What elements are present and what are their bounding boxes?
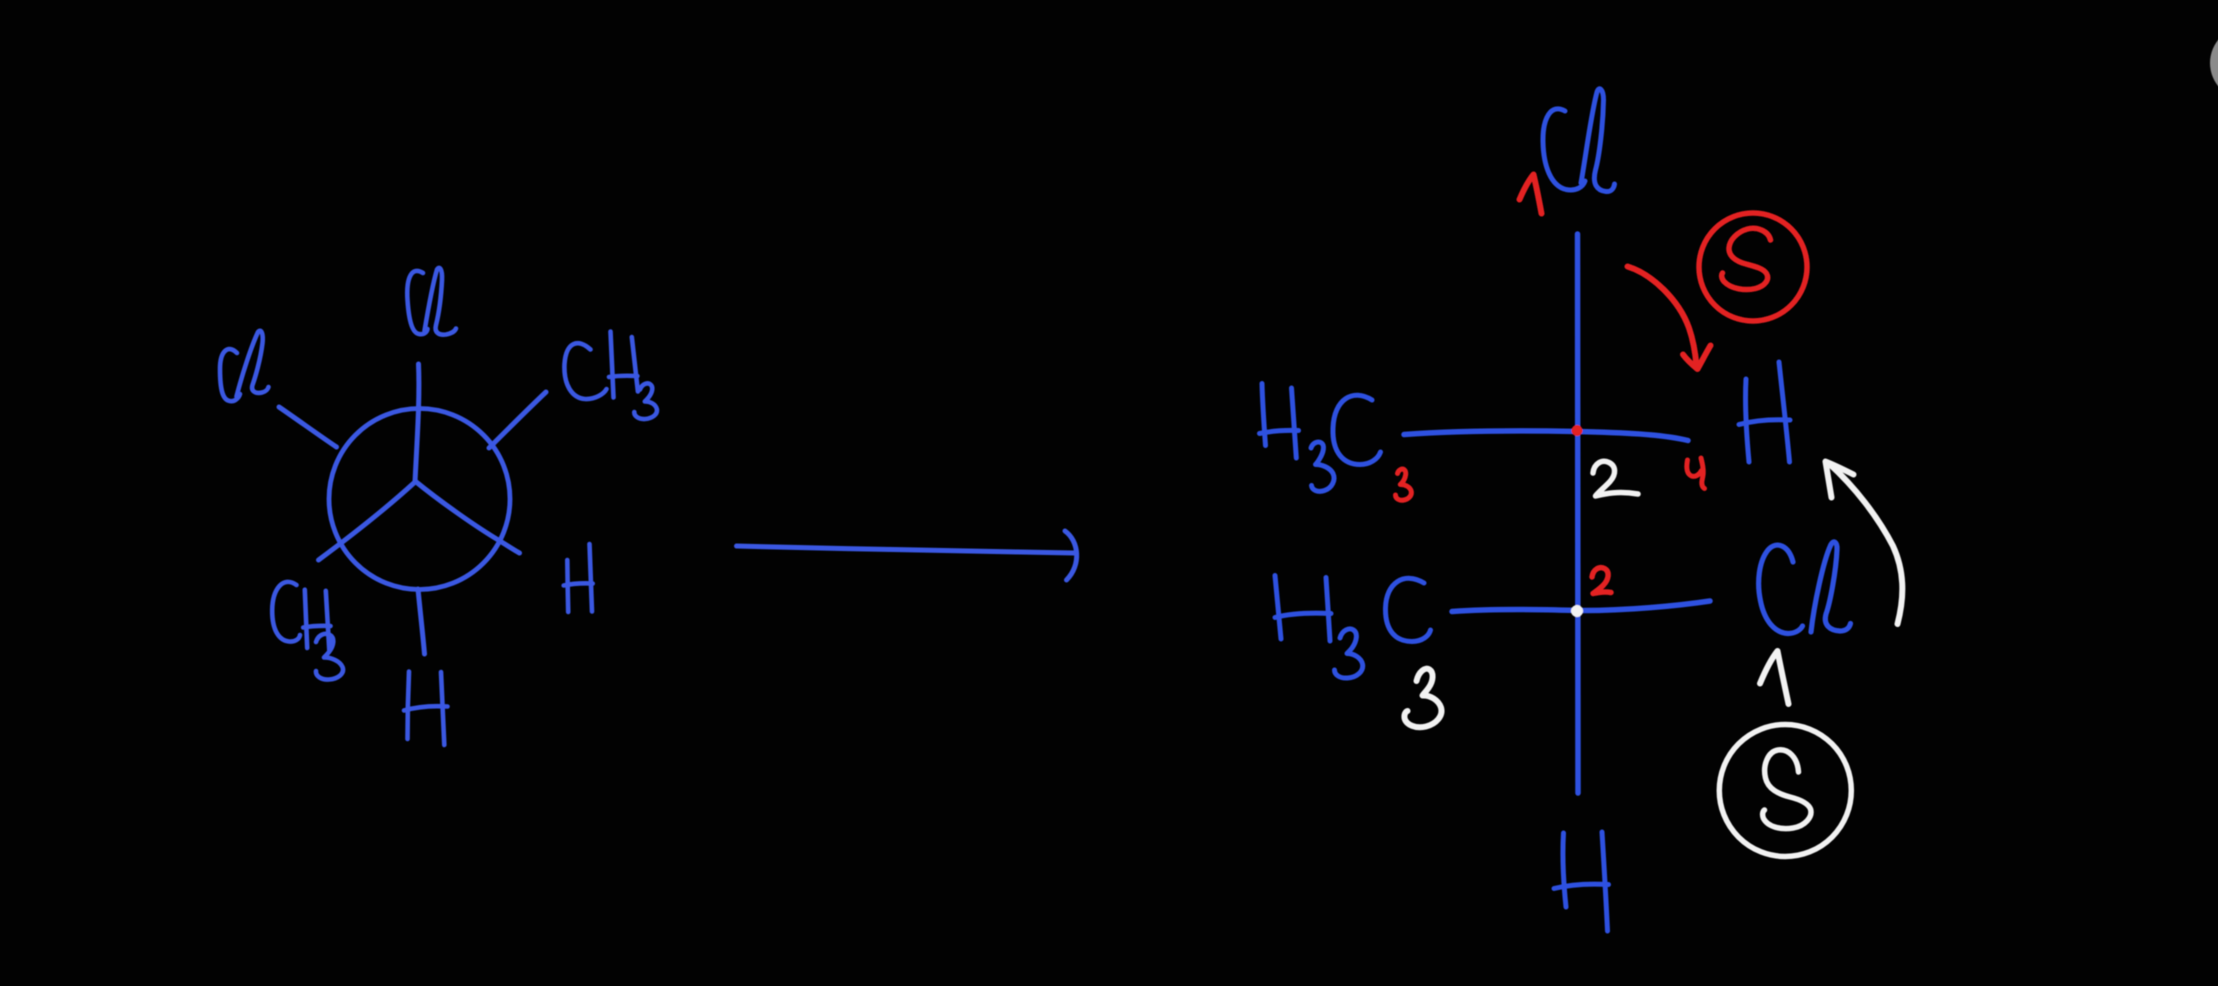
- red 3 annotation at C2 methyl: [1396, 469, 1412, 500]
- gray corner blob: [2210, 26, 2218, 100]
- label CH3 upper-right of newman: [564, 332, 657, 420]
- red dot at C2: [1572, 425, 1583, 436]
- label Cl right of C3: [1759, 542, 1851, 634]
- fischer vertical bond: [1575, 234, 1581, 793]
- fischer horizontal bond C2: [1404, 431, 1688, 441]
- label H bottom of newman: [404, 672, 448, 746]
- label Cl top of fischer: [1543, 89, 1615, 192]
- red circled S: [1699, 213, 1807, 321]
- label H right of C2: [1739, 362, 1790, 462]
- red 1 annotation at Cl top: [1520, 175, 1542, 214]
- label Cl top of newman: [407, 268, 456, 335]
- label CH3 lower-left of newman: [272, 582, 343, 680]
- label H3C left of C2: [1260, 384, 1381, 492]
- front bond to Cl (top): [415, 364, 419, 482]
- white 1 annotation at Cl: [1760, 651, 1789, 704]
- label H bottom of fischer: [1554, 832, 1609, 931]
- white circled S: [1719, 725, 1851, 857]
- back bond to H (bottom): [418, 589, 425, 654]
- red 4 annotation at C2 H: [1687, 458, 1705, 489]
- front bond to H (lower-right): [415, 481, 520, 553]
- reaction arrow: [737, 546, 1075, 553]
- red curved arrow to C2 H: [1628, 267, 1711, 370]
- label H3C left of C3: [1275, 576, 1431, 679]
- reaction arrow head: [1065, 531, 1077, 580]
- white 2 annotation at C2: [1593, 461, 1638, 496]
- newman projection circle: [329, 409, 510, 590]
- white 3 annotation at C3 methyl: [1404, 669, 1441, 728]
- red 2 annotation at C3: [1592, 568, 1611, 594]
- front bond to CH3 (lower-left): [319, 482, 416, 560]
- back bond to Cl (upper-left): [279, 407, 337, 447]
- white dot at C3: [1571, 605, 1583, 617]
- fischer horizontal bond C3: [1452, 601, 1710, 612]
- white curved arrow to C2 H: [1826, 462, 1903, 625]
- label H right of newman: [564, 544, 593, 612]
- label Cl upper-left of newman: [220, 331, 269, 401]
- back bond to CH3 (upper-right): [489, 392, 546, 448]
